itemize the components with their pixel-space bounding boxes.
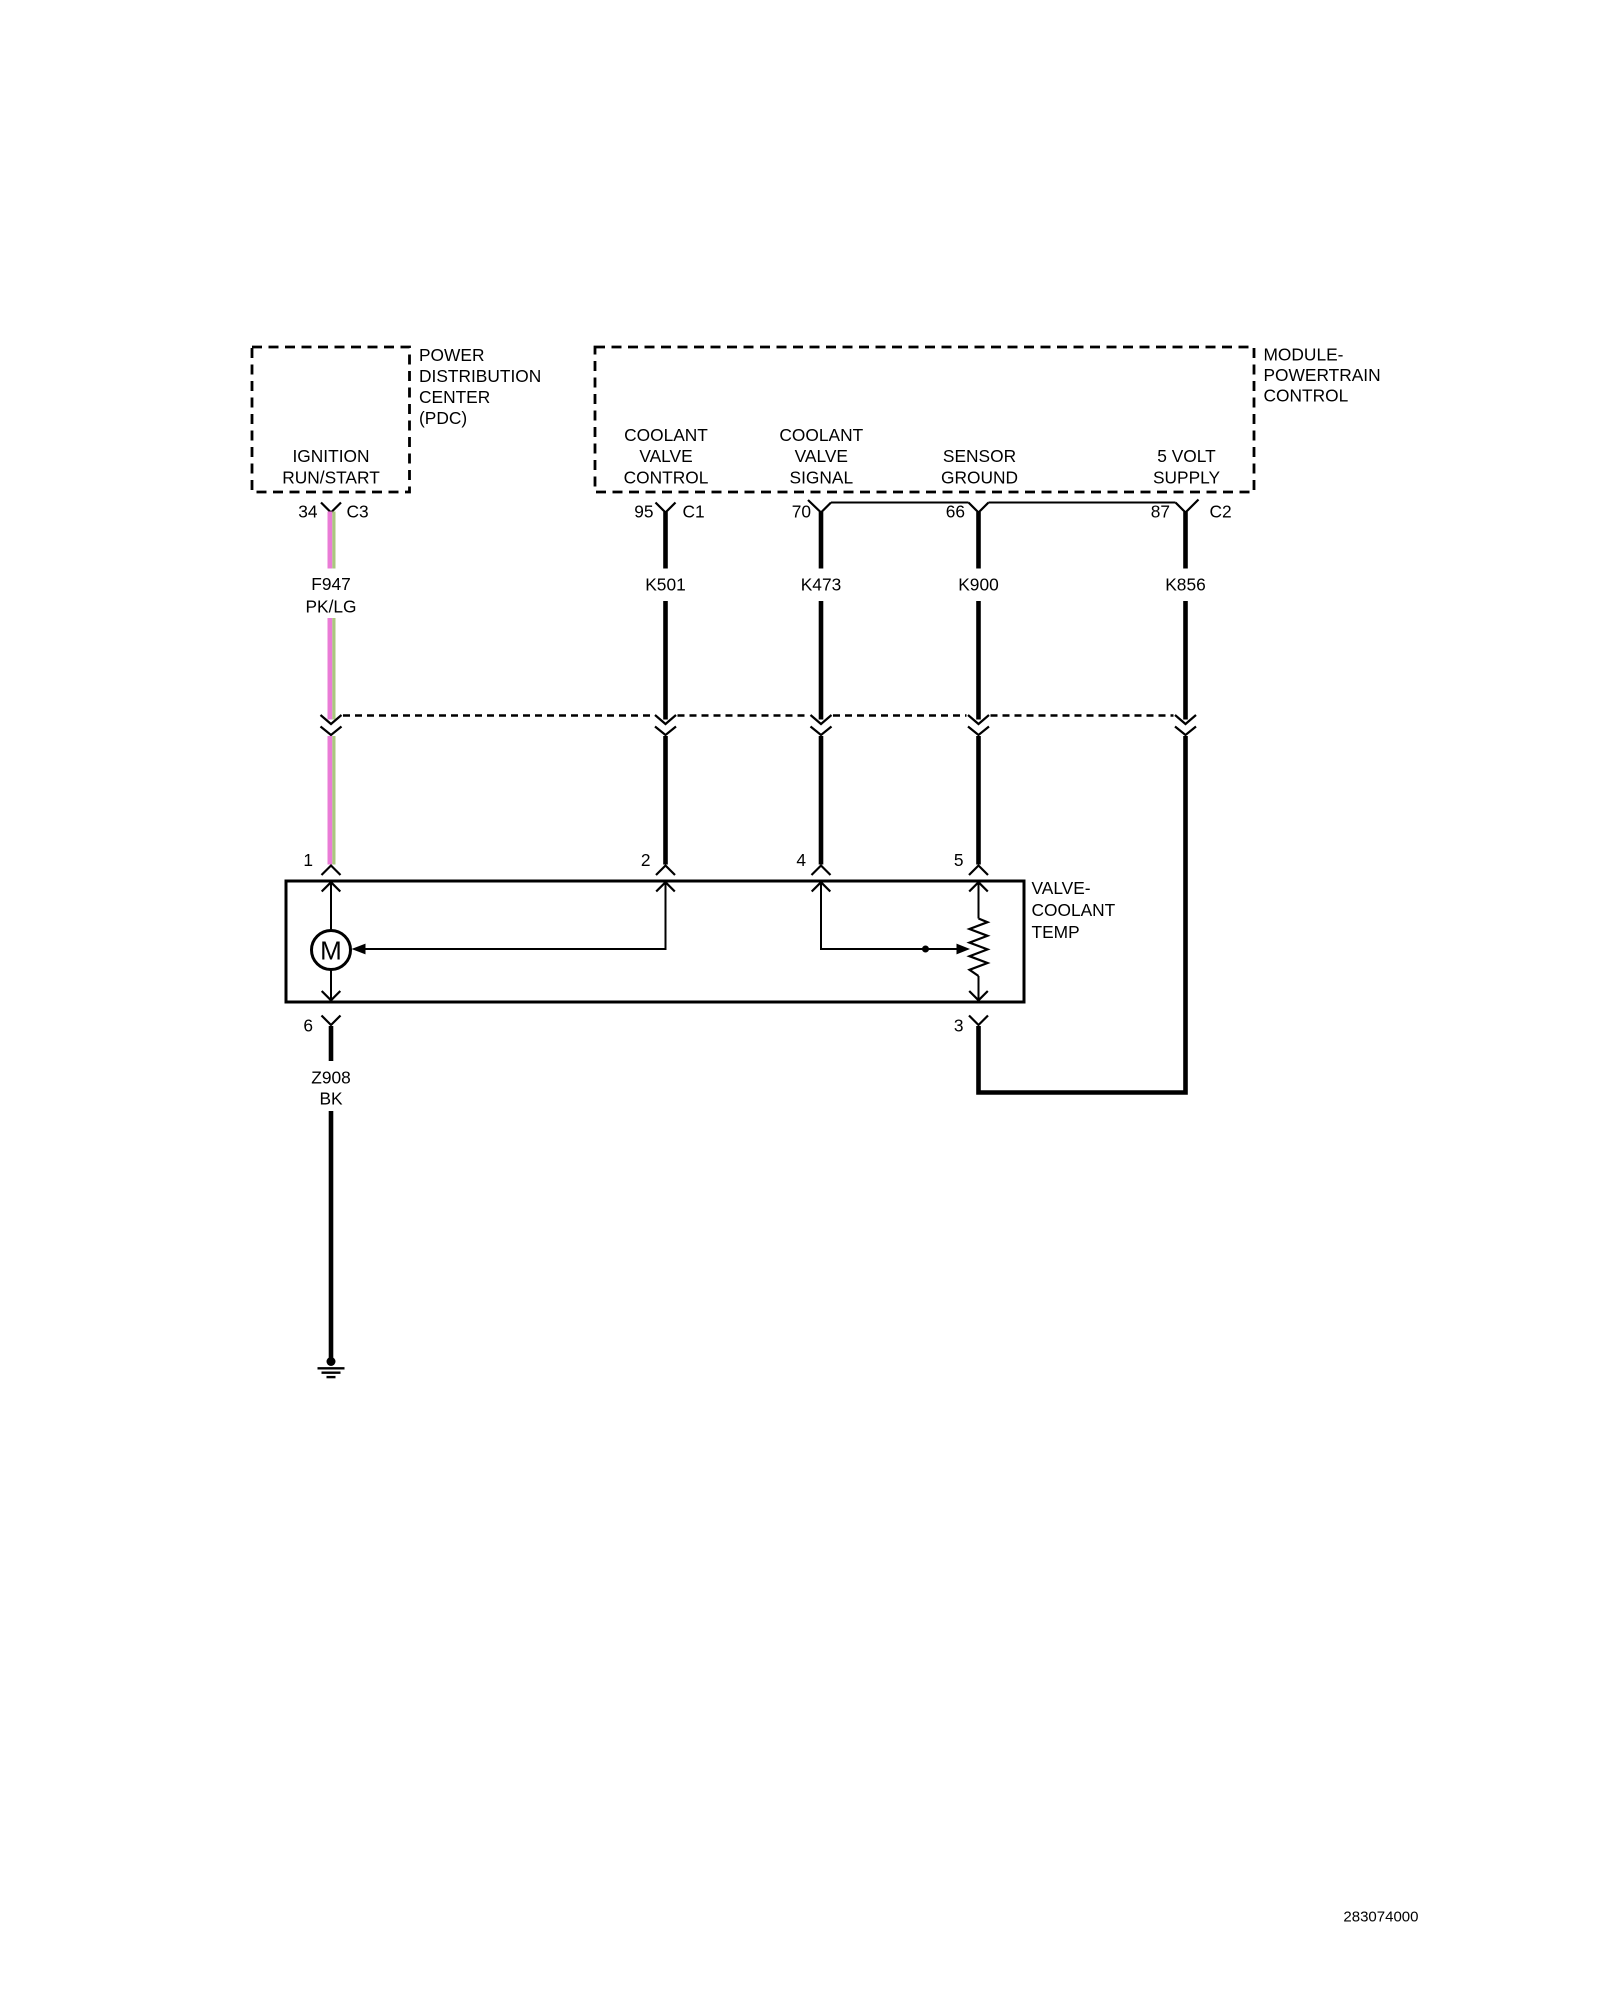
svg-text:SIGNAL: SIGNAL xyxy=(790,468,854,488)
resistor to pin 3 line with arrow xyxy=(969,976,988,1001)
wire F947 PK/LG lower xyxy=(330,736,334,865)
svg-text:COOLANT: COOLANT xyxy=(779,425,863,445)
wire K501 upper xyxy=(663,512,668,720)
connector pin 70 xyxy=(792,500,831,522)
pin 2 internal arrow and wire to motor xyxy=(352,882,675,954)
svg-text:CONTROL: CONTROL xyxy=(1264,386,1349,406)
valve-coolant temp box xyxy=(286,881,1024,1002)
svg-text:283074000: 283074000 xyxy=(1343,1909,1418,1926)
svg-text:PK/LG: PK/LG xyxy=(305,596,356,616)
wire label K900 xyxy=(958,575,998,595)
wire label K501 xyxy=(645,575,685,595)
wire label Z908 BK xyxy=(311,1067,351,1108)
svg-text:MODULE-: MODULE- xyxy=(1264,345,1344,365)
in-line connector dashed line xyxy=(343,714,1174,716)
svg-text:BK: BK xyxy=(319,1089,343,1109)
valve pin 4 connector xyxy=(796,850,830,875)
svg-text:87: 87 xyxy=(1151,502,1170,522)
module-powertrain control box xyxy=(595,347,1254,492)
svg-text:4: 4 xyxy=(796,850,806,870)
svg-text:K900: K900 xyxy=(958,575,998,595)
wire Z908 BK lower xyxy=(329,1111,334,1360)
svg-text:C1: C1 xyxy=(683,502,705,522)
resistor (coolant temp sensor) xyxy=(970,919,988,977)
svg-text:3: 3 xyxy=(954,1016,964,1036)
svg-text:95: 95 xyxy=(634,502,653,522)
connector pin 95 C1 xyxy=(634,502,704,522)
svg-text:TEMP: TEMP xyxy=(1032,922,1080,942)
in-line connector at K473 xyxy=(811,715,832,735)
motor to ground line with arrow xyxy=(322,970,341,1001)
valve pin 1 connector xyxy=(303,850,340,875)
wire label F947 PK/LG xyxy=(305,574,356,616)
valve pin 5 connector xyxy=(954,850,988,875)
wire K501 lower xyxy=(663,736,668,865)
svg-text:K856: K856 xyxy=(1165,575,1205,595)
wire K900 upper xyxy=(976,512,981,720)
svg-text:5 VOLT: 5 VOLT xyxy=(1157,446,1216,466)
coolant valve control label xyxy=(624,425,709,488)
svg-text:POWERTRAIN: POWERTRAIN xyxy=(1264,365,1381,385)
svg-text:VALVE: VALVE xyxy=(795,446,848,466)
connector pin 87 C2 xyxy=(1151,500,1232,522)
svg-text:POWER: POWER xyxy=(419,345,484,365)
svg-text:34: 34 xyxy=(298,502,318,522)
svg-text:(PDC): (PDC) xyxy=(419,408,467,428)
connector C2 bus line xyxy=(831,502,1176,504)
connector pin 34 C3 xyxy=(298,502,368,522)
svg-text:K473: K473 xyxy=(801,575,841,595)
svg-text:CONTROL: CONTROL xyxy=(624,468,709,488)
svg-text:RUN/START: RUN/START xyxy=(282,468,380,488)
svg-text:COOLANT: COOLANT xyxy=(1032,900,1116,920)
wire K856 upper xyxy=(1183,512,1188,720)
ground G xyxy=(318,1357,345,1377)
svg-text:1: 1 xyxy=(303,850,313,870)
svg-text:SENSOR: SENSOR xyxy=(943,446,1016,466)
svg-text:K501: K501 xyxy=(645,575,685,595)
svg-text:Z908: Z908 xyxy=(311,1067,351,1087)
valve pin 3 connector xyxy=(954,1016,988,1036)
wire K900 lower xyxy=(976,736,981,865)
svg-text:M: M xyxy=(320,935,342,965)
in-line connector at K856 xyxy=(1175,715,1196,735)
footer sheet number xyxy=(1343,1909,1418,1926)
connector pin 66 xyxy=(946,502,989,522)
in-line connector at K900 xyxy=(968,715,989,735)
pin 4 internal arrow and wiper wire xyxy=(812,882,970,954)
in-line connector at F947 xyxy=(321,715,342,735)
svg-text:SUPPLY: SUPPLY xyxy=(1153,468,1221,488)
PDC box label xyxy=(419,345,541,428)
5 volt supply label xyxy=(1153,446,1221,487)
pin 5 internal arrow xyxy=(969,882,988,918)
wire K473 upper xyxy=(819,512,824,720)
pin 1 internal arrow xyxy=(322,882,341,930)
valve box label xyxy=(1032,878,1116,942)
wire Z908 BK upper xyxy=(329,1026,334,1061)
wire F947 PK/LG upper xyxy=(330,512,334,720)
valve pin 2 connector xyxy=(641,850,675,875)
wire label K473 xyxy=(801,575,841,595)
svg-text:C2: C2 xyxy=(1210,502,1232,522)
svg-text:C3: C3 xyxy=(347,502,369,522)
wire K473 lower xyxy=(819,736,824,865)
in-line connector at K501 xyxy=(655,715,676,735)
motor M xyxy=(312,931,351,970)
power distribution center box xyxy=(252,347,410,492)
valve pin 6 connector xyxy=(303,1016,340,1036)
svg-text:F947: F947 xyxy=(311,574,351,594)
svg-text:6: 6 xyxy=(303,1016,313,1036)
svg-text:2: 2 xyxy=(641,850,651,870)
svg-text:66: 66 xyxy=(946,502,965,522)
wire K856 lower to pin 3 xyxy=(979,736,1186,1093)
coolant valve signal label xyxy=(779,425,863,488)
svg-text:GROUND: GROUND xyxy=(941,468,1018,488)
svg-text:VALVE-: VALVE- xyxy=(1032,878,1091,898)
svg-text:IGNITION: IGNITION xyxy=(292,446,369,466)
svg-text:70: 70 xyxy=(792,502,811,522)
ignition run/start label xyxy=(282,446,380,487)
wire label K856 xyxy=(1165,575,1205,595)
svg-text:DISTRIBUTION: DISTRIBUTION xyxy=(419,366,541,386)
PCM box label xyxy=(1264,345,1381,406)
svg-text:CENTER: CENTER xyxy=(419,387,490,407)
svg-text:COOLANT: COOLANT xyxy=(624,425,708,445)
svg-text:5: 5 xyxy=(954,850,964,870)
svg-text:VALVE: VALVE xyxy=(639,446,692,466)
sensor ground label xyxy=(941,446,1018,487)
